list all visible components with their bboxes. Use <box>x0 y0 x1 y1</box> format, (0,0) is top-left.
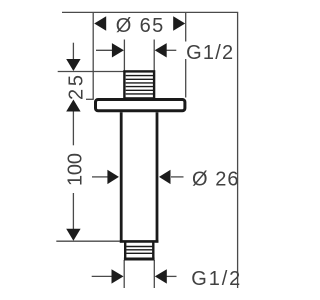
svg-text:G1/2: G1/2 <box>186 42 233 64</box>
svg-text:G1/2: G1/2 <box>191 268 240 290</box>
svg-text:Ø 26: Ø 26 <box>192 169 239 191</box>
svg-text:100: 100 <box>65 153 87 186</box>
svg-text:Ø 65: Ø 65 <box>116 15 164 37</box>
